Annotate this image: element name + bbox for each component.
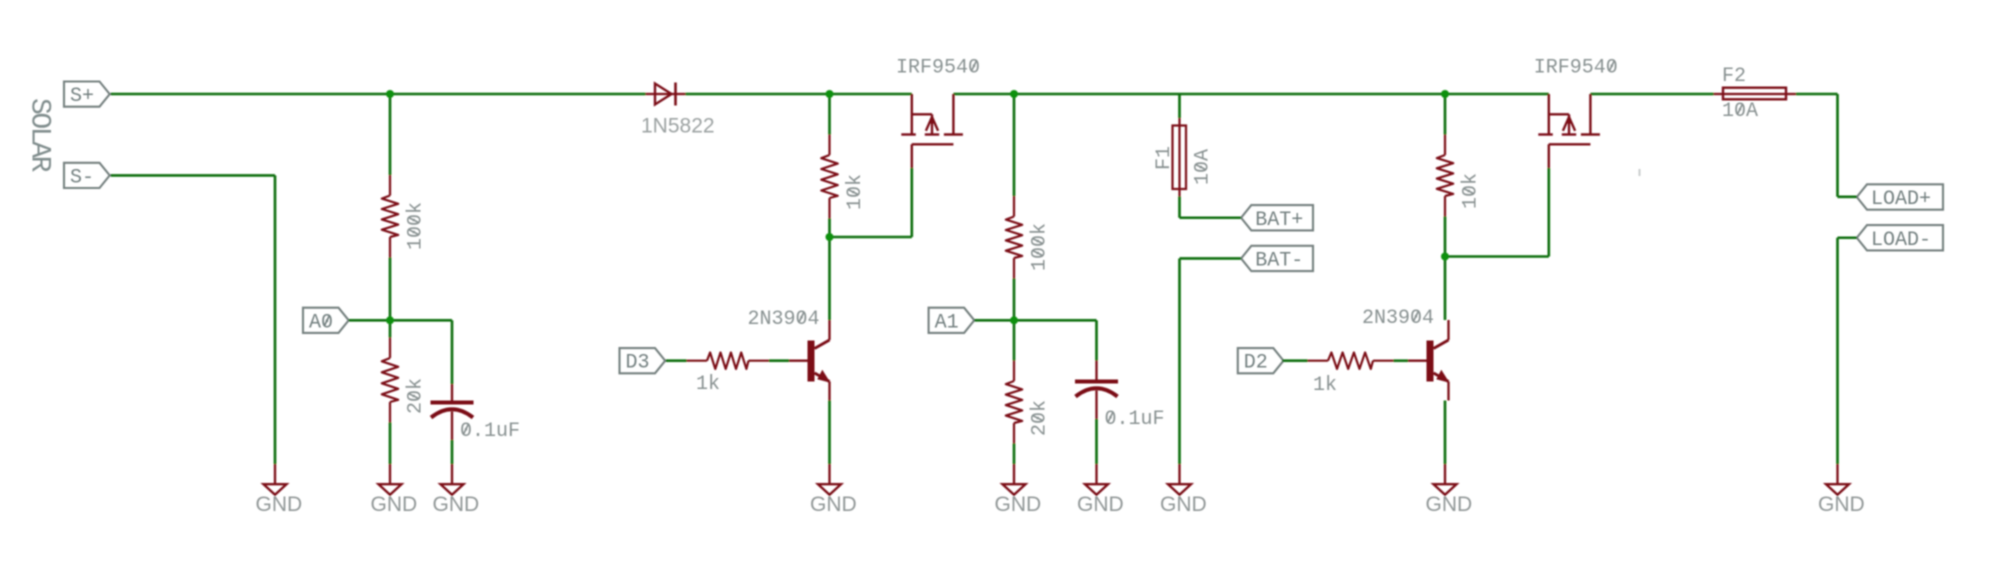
wire D3 flag to R7 (666, 359, 687, 362)
wire Q1 emitter to ground (828, 401, 831, 465)
wire R6 to gate node 2 (1444, 217, 1447, 257)
svg-text:100k: 100k (1029, 223, 1052, 271)
wire down to LOAD+ (1836, 94, 1839, 197)
svg-text:F1: F1 (1153, 146, 1176, 170)
wire rail to R1 (389, 94, 392, 175)
wire node A1 to R4 (1013, 320, 1016, 360)
label 10A (F1) (1192, 149, 1215, 185)
ground GND BAT- (1160, 464, 1207, 516)
svg-text:S-: S- (70, 166, 94, 189)
svg-text:GND: GND (1160, 493, 1207, 516)
svg-text:IRF9540: IRF9540 (1534, 57, 1618, 80)
wire rail to R5 (828, 94, 831, 135)
label 10k (R6) (1460, 173, 1483, 209)
wire R4 to ground (1013, 444, 1016, 465)
flag D3 (620, 348, 666, 375)
svg-text:LOAD+: LOAD+ (1871, 188, 1931, 211)
wire gate node 2 to Q4 gate (1445, 255, 1549, 258)
ground GND Q2 (1426, 464, 1473, 516)
wire BAT- tip (1180, 257, 1242, 260)
svg-text:D3: D3 (626, 352, 650, 375)
ground GND C2 (1077, 464, 1124, 516)
transistor Q1 2N3904 (789, 320, 831, 401)
junction node rail / R5 (826, 90, 834, 98)
wire gate node 2 to Q2 collector (1444, 257, 1447, 321)
svg-text:S+: S+ (70, 85, 94, 108)
label 100k (R1) (405, 202, 428, 250)
wire LOAD- tip (1838, 236, 1857, 239)
ground GND C1 (433, 464, 480, 516)
wire to LOAD+ tip (1838, 196, 1857, 199)
wire R5 to gate node (828, 219, 831, 238)
mosfet Q3 IRF9540 (901, 94, 963, 168)
wire down to C2 (1095, 320, 1098, 360)
label IRF9540 (Q4) (1534, 57, 1618, 80)
flag A1 (929, 308, 975, 335)
wire R7 to Q1 base (769, 359, 789, 362)
transistor Q2 2N3904 (1408, 320, 1450, 401)
flag BAT+ (1241, 205, 1313, 232)
svg-text:GND: GND (1426, 493, 1473, 516)
svg-text:10A: 10A (1722, 100, 1758, 123)
wire rail to R3 (1013, 94, 1016, 196)
resistor R2 20k (382, 338, 398, 423)
wire gate node to Q1 collector (828, 237, 831, 320)
flag D2 (1238, 348, 1284, 375)
svg-text:0.1uF: 0.1uF (1105, 408, 1165, 431)
junction node S+ / R1 (386, 90, 394, 98)
label 0.1uF (C1) (460, 420, 520, 443)
wire S- down to ground (274, 175, 277, 464)
wire S- horizontal (111, 174, 276, 177)
label SOLAR (24, 98, 55, 173)
svg-text:10A: 10A (1192, 149, 1215, 185)
svg-text:20k: 20k (1029, 400, 1052, 436)
svg-text:BAT-: BAT- (1255, 249, 1303, 272)
wire C1 to ground (451, 440, 454, 464)
wire S+ rail to diode (111, 93, 646, 96)
label 20k (R4) (1029, 400, 1052, 436)
ground GND R2 (371, 464, 418, 516)
resistor R5 10k (821, 135, 837, 219)
svg-text:GND: GND (433, 493, 480, 516)
capacitor C2 0.1uF (1075, 361, 1118, 420)
svg-text:GND: GND (995, 493, 1042, 516)
junction node rail / R6 (1441, 90, 1449, 98)
node A1 junction (1010, 316, 1018, 324)
resistor R3 100k (1006, 196, 1022, 279)
label 2N3904 (Q1) (748, 308, 820, 331)
svg-text:10k: 10k (844, 174, 867, 210)
wire R1 to node A0 (389, 258, 392, 321)
svg-text:GND: GND (371, 493, 418, 516)
junction gate net 1 (826, 233, 834, 241)
svg-text:IRF9540: IRF9540 (896, 57, 980, 80)
wire C2 to ground (1095, 419, 1098, 464)
wire rail to fuse F1 (1178, 94, 1181, 118)
ground GND LOAD- (1818, 464, 1865, 516)
resistor R6 10k (1437, 135, 1453, 217)
wire LOAD- down to ground (1836, 238, 1839, 464)
ground GND Q1 (810, 464, 857, 516)
wire node A0 to R2 (389, 320, 392, 337)
wire BAT- to ground (1178, 258, 1181, 464)
wire D2 flag to R8 (1282, 359, 1307, 362)
fuse F2 (1714, 88, 1797, 100)
label IRF9540 (Q3) (896, 57, 980, 80)
wire down to C1 (451, 320, 454, 384)
wire A1 flag to node (974, 319, 1014, 322)
flag S+ (64, 82, 110, 109)
resistor R1 100k (382, 175, 398, 258)
resistor R4 20k (1006, 361, 1022, 444)
wire Q4 gate down (1548, 168, 1551, 257)
mosfet Q4 IRF9540 (1538, 94, 1600, 168)
svg-text:A0: A0 (309, 311, 333, 334)
label F1 (1153, 146, 1176, 170)
flag LOAD+ (1857, 184, 1943, 211)
svg-text:GND: GND (256, 493, 303, 516)
wire diode to Q3 source (686, 93, 912, 96)
svg-text:1N5822: 1N5822 (641, 115, 715, 138)
flag BAT- (1241, 246, 1313, 273)
svg-text:2N3904: 2N3904 (1362, 307, 1434, 330)
svg-text:F2: F2 (1722, 65, 1746, 88)
flag LOAD- (1857, 225, 1943, 252)
resistor R7 1k (687, 353, 770, 369)
wire R2 to ground (389, 423, 392, 465)
svg-text:GND: GND (1077, 493, 1124, 516)
svg-text:GND: GND (810, 493, 857, 516)
svg-text:100k: 100k (405, 202, 428, 250)
svg-text:A1: A1 (935, 311, 959, 334)
wire fuse F2 to load branch (1796, 93, 1838, 96)
flag S- (64, 163, 110, 190)
label 2N3904 (Q2) (1362, 307, 1434, 330)
junction gate net 2 (1441, 253, 1449, 261)
wire R3 to node A1 (1013, 279, 1016, 321)
label 1k (R8) (1313, 374, 1337, 397)
wire Q2 emitter to ground (1444, 401, 1447, 465)
wire Q4 drain to fuse F2 (1590, 93, 1713, 96)
wire rail to R6 (1444, 94, 1447, 135)
label F2 (1722, 65, 1746, 88)
label 10k (R5) (844, 174, 867, 210)
wire Q3 gate down (910, 168, 913, 237)
wire node A1 to C2 (1014, 319, 1097, 322)
wire gate node to Q3 gate (830, 236, 912, 239)
node A0 junction (386, 316, 394, 324)
svg-text:SOLAR: SOLAR (24, 98, 55, 173)
svg-text:10k: 10k (1460, 173, 1483, 209)
svg-text:1k: 1k (1313, 374, 1337, 397)
label 10A (F2) (1722, 100, 1758, 123)
label 1k (R7) (696, 373, 720, 396)
svg-text:1k: 1k (696, 373, 720, 396)
junction node rail / R3 (1010, 90, 1018, 98)
wire to BAT+ tip (1180, 216, 1242, 219)
resistor R8 1k (1308, 353, 1394, 369)
stray mark (1639, 169, 1641, 176)
wire Q3 drain to Q4 source (953, 93, 1548, 96)
label 20k (R2) (405, 378, 428, 414)
capacitor C1 0.1uF (431, 384, 474, 440)
wire fuse F1 to BAT+ (1178, 197, 1181, 218)
svg-text:20k: 20k (405, 378, 428, 414)
svg-text:GND: GND (1818, 493, 1865, 516)
label 0.1uF (C2) (1105, 408, 1165, 431)
wire R8 to Q2 base (1394, 359, 1409, 362)
svg-text:BAT+: BAT+ (1255, 209, 1303, 232)
wire node A0 to C1 (390, 319, 452, 322)
wire A0 flag to node (349, 319, 390, 322)
svg-text:2N3904: 2N3904 (748, 308, 820, 331)
flag A0 (303, 308, 349, 335)
svg-text:LOAD-: LOAD- (1871, 229, 1931, 252)
label 100k (R3) (1029, 223, 1052, 271)
svg-text:0.1uF: 0.1uF (460, 420, 520, 443)
ground GND R4 (995, 464, 1042, 516)
svg-text:D2: D2 (1244, 352, 1268, 375)
fuse F1 (1173, 118, 1187, 197)
diode D1 1N5822 (646, 83, 686, 106)
ground GND S- (256, 464, 303, 516)
